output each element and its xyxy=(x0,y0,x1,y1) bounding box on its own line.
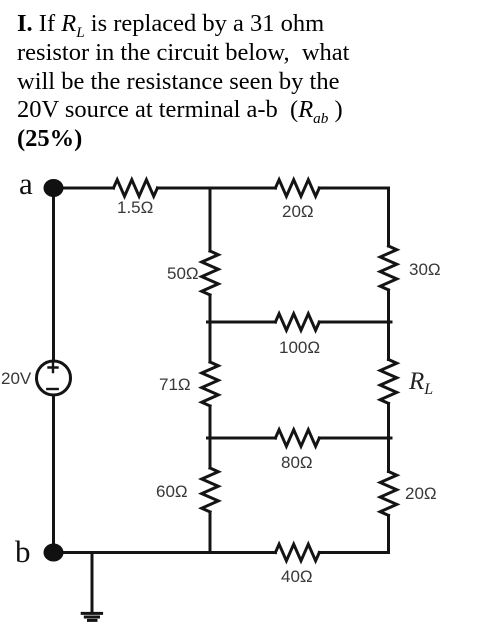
wire bottom: node b to 40ohm xyxy=(54,551,276,554)
wire row3: mid to 80ohm xyxy=(208,437,276,440)
resistor 20ohm (horizontal, top) xyxy=(275,180,319,197)
plus sign inside source xyxy=(49,363,58,372)
wire left: source to node b xyxy=(52,395,55,553)
voltage source 20V (circle) xyxy=(37,361,71,395)
ground symbol xyxy=(82,612,101,615)
wire mid: 50ohm to row2 xyxy=(209,295,212,362)
wire row2: mid to 100ohm xyxy=(208,321,276,324)
node b junction dot xyxy=(44,544,64,562)
svg-text:50Ω: 50Ω xyxy=(167,264,199,283)
wire mid: 71ohm to row3 xyxy=(209,406,212,468)
svg-text:20Ω: 20Ω xyxy=(405,484,437,503)
wire top: node a to 1.5ohm xyxy=(54,187,114,190)
wire row3: 80ohm to right xyxy=(319,437,391,440)
wire mid: 60ohm to bottom xyxy=(209,512,212,553)
resistor 30ohm (vertical, right) xyxy=(380,246,397,290)
wire right: 20ohm to bottom corner xyxy=(387,516,390,553)
resistor 1.5ohm (horizontal, top left) xyxy=(114,180,158,197)
wire right: row3 to 20ohm xyxy=(387,438,390,472)
resistor 80ohm (horizontal, row3) xyxy=(275,430,319,447)
resistor RL (vertical, right) xyxy=(380,360,397,404)
svg-text:60Ω: 60Ω xyxy=(156,482,188,501)
ground stub wire xyxy=(91,553,94,613)
wire mid: top to 50ohm xyxy=(209,188,212,251)
svg-text:b: b xyxy=(15,534,31,569)
wire right: 30ohm to row2 xyxy=(387,290,390,360)
wire right: RL to row3 xyxy=(387,404,390,439)
wire right: top corner to 30ohm xyxy=(387,188,390,246)
resistor 100ohm (horizontal, row2) xyxy=(275,314,319,331)
wire left: node a down to 20V source xyxy=(52,188,55,361)
svg-text:30Ω: 30Ω xyxy=(409,260,441,279)
resistor 20ohm (vertical, right bottom) xyxy=(380,472,397,516)
node a junction dot xyxy=(44,179,64,197)
svg-text:100Ω: 100Ω xyxy=(279,338,320,357)
svg-text:20Ω: 20Ω xyxy=(282,202,314,221)
resistor 50ohm (vertical, middle) xyxy=(202,251,219,295)
svg-text:71Ω: 71Ω xyxy=(159,375,191,394)
resistor 60ohm (vertical, middle) xyxy=(202,468,219,512)
svg-text:1.5Ω: 1.5Ω xyxy=(117,198,153,217)
svg-text:RL: RL xyxy=(408,368,433,398)
wire bottom: 40ohm to bottom-right corner xyxy=(319,551,388,554)
resistor 40ohm (horizontal, bottom) xyxy=(275,544,319,561)
wire top: 20ohm to top-right corner xyxy=(319,187,388,190)
wire row2: 100ohm to right xyxy=(319,321,391,324)
wire top: 1.5ohm to 20ohm xyxy=(158,187,276,190)
svg-text:40Ω: 40Ω xyxy=(281,567,313,586)
problem statement text xyxy=(17,10,389,154)
resistor 71ohm (vertical, middle) xyxy=(202,362,219,406)
svg-text:20V: 20V xyxy=(1,369,32,388)
svg-text:80Ω: 80Ω xyxy=(281,453,313,472)
svg-text:a: a xyxy=(19,166,33,201)
minus sign inside source xyxy=(47,388,57,390)
